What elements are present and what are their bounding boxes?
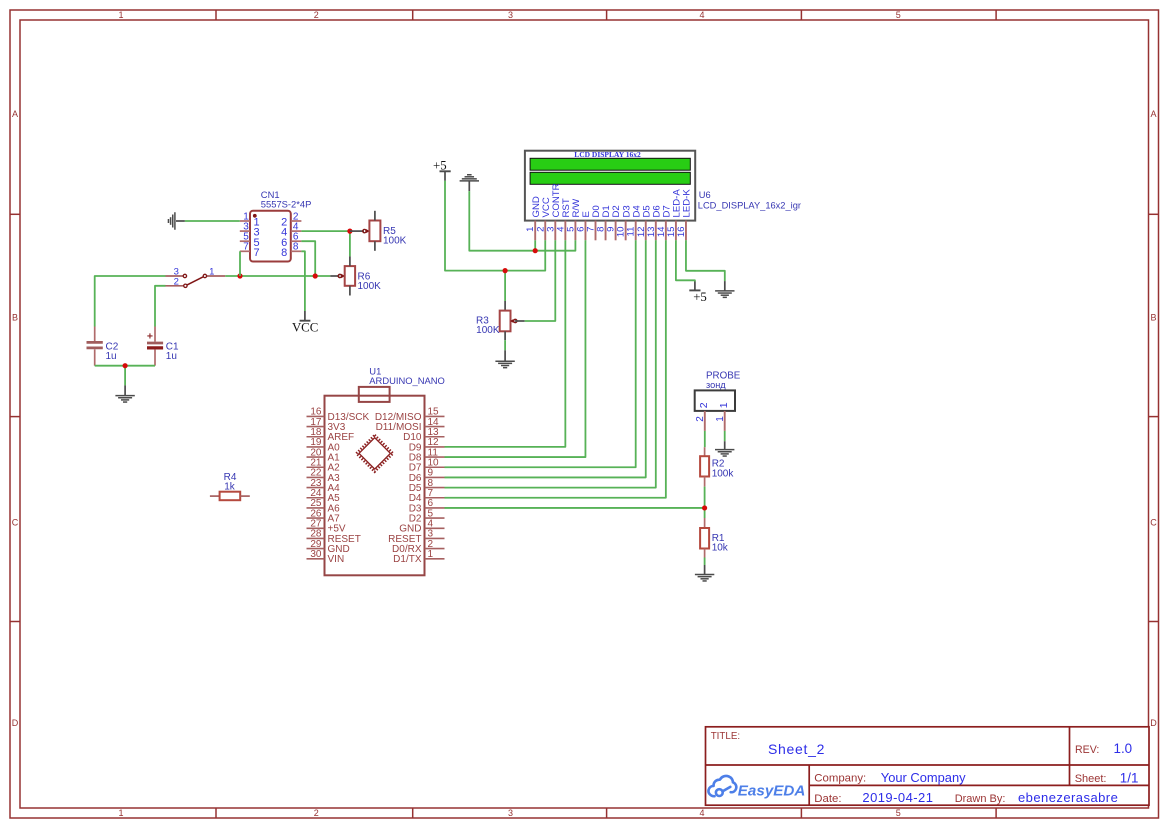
wire LCD D4 to D7 <box>445 240 636 467</box>
junction CN1 pin4 / R5 wiper <box>347 229 352 234</box>
svg-text:B: B <box>1150 312 1156 322</box>
U1 left pins 16-30 <box>307 407 370 566</box>
wire LCD E to D8 <box>445 240 586 457</box>
svg-text:2: 2 <box>314 10 319 20</box>
title block <box>706 727 1150 805</box>
svg-text:LCD_DISPLAY_16x2_igr: LCD_DISPLAY_16x2_igr <box>698 201 801 211</box>
LCD display U6 body <box>525 151 695 221</box>
junction switch/CN1 pin7 <box>237 273 242 278</box>
svg-text:B: B <box>12 312 18 322</box>
svg-text:EasyEDA: EasyEDA <box>738 782 806 799</box>
switch pin 3 wire <box>95 276 166 327</box>
U1 right pins 15-1 <box>375 407 445 566</box>
svg-text:1u: 1u <box>166 351 177 362</box>
svg-text:1: 1 <box>428 549 434 560</box>
svg-text:8: 8 <box>281 247 287 259</box>
svg-text:Company:: Company: <box>814 773 866 785</box>
U1 USB notch <box>359 387 390 402</box>
svg-text:Your Company: Your Company <box>881 770 966 785</box>
LCD pin stubs <box>535 221 686 241</box>
svg-text:D: D <box>1150 718 1157 728</box>
LCD pin names <box>531 183 693 217</box>
main wire switch to R6 <box>225 275 330 277</box>
svg-text:4: 4 <box>699 10 704 20</box>
potentiometer R3 <box>476 271 525 341</box>
svg-text:ebenezerasabre: ebenezerasabre <box>1018 790 1118 805</box>
ground below caps <box>124 385 126 395</box>
svg-text:зонд: зонд <box>706 380 726 390</box>
svg-text:LCD DISPLAY 16x2: LCD DISPLAY 16x2 <box>574 150 641 159</box>
PROBE pin stubs <box>704 411 706 431</box>
svg-text:30: 30 <box>310 549 322 560</box>
svg-text:5: 5 <box>896 808 901 818</box>
svg-text:1: 1 <box>718 402 730 408</box>
svg-text:100k: 100k <box>712 468 735 479</box>
svg-text:D: D <box>12 718 19 728</box>
switch pin 2 wire <box>155 286 166 327</box>
junction R3 top <box>503 268 508 273</box>
potentiometer R5 <box>350 211 407 251</box>
wire LCD D7 to D4 <box>445 240 666 497</box>
svg-text:A: A <box>1150 109 1156 119</box>
wire ground to GND pin1 and R/W pin5 <box>469 191 575 251</box>
svg-text:Sheet_2: Sheet_2 <box>768 741 825 757</box>
svg-text:Date:: Date: <box>814 793 841 805</box>
svg-text:1.0: 1.0 <box>1114 741 1133 756</box>
svg-text:100K: 100K <box>383 236 407 247</box>
VCC power symbol <box>304 311 306 321</box>
junction pin6/main wire <box>313 273 318 278</box>
svg-text:1: 1 <box>118 10 123 20</box>
svg-text:Sheet:: Sheet: <box>1075 773 1107 785</box>
+5 power symbol right <box>694 282 696 291</box>
wire to ground <box>124 366 126 386</box>
svg-text:7: 7 <box>243 242 249 253</box>
ground right of LCD <box>724 281 726 291</box>
wire probe pin1 to ground <box>724 431 726 441</box>
svg-text:8: 8 <box>293 242 299 253</box>
resistor R4 <box>210 472 250 500</box>
junction R2/R1 <box>702 505 707 510</box>
wire R2 to junction to R1 <box>704 487 706 518</box>
svg-text:3: 3 <box>508 808 513 818</box>
svg-text:Drawn By:: Drawn By: <box>955 793 1006 805</box>
svg-text:C: C <box>1150 517 1157 527</box>
ground under R1 <box>704 565 706 574</box>
svg-text:2: 2 <box>695 416 706 422</box>
switch SPDT <box>166 266 226 287</box>
resistor R1 <box>700 518 729 558</box>
wire CN1 pin6 down to main <box>301 241 315 276</box>
junction caps-gnd <box>123 363 128 368</box>
svg-text:C: C <box>12 517 19 527</box>
svg-text:ARDUINO_NANO: ARDUINO_NANO <box>369 375 445 386</box>
svg-text:D1/TX: D1/TX <box>393 554 422 565</box>
svg-text:LED-K: LED-K <box>682 189 693 218</box>
wire CN1 pin1 to ground <box>185 220 240 222</box>
wire CN1 pin4 to R5 <box>301 230 350 232</box>
svg-text:4: 4 <box>699 808 704 818</box>
svg-text:3: 3 <box>508 10 513 20</box>
svg-text:+: + <box>147 331 153 343</box>
connector CN1 body <box>250 211 291 262</box>
svg-text:1: 1 <box>118 808 123 818</box>
connector PROBE body <box>695 390 735 411</box>
wire R1 to ground <box>704 558 706 566</box>
wire LCD RST to D9 <box>445 240 566 447</box>
svg-text:1: 1 <box>209 266 214 277</box>
svg-text:5557S-2*4P: 5557S-2*4P <box>261 198 312 209</box>
CN1 right pins 2,4,6,8 <box>281 211 301 259</box>
CN1 left pins 1,3,5,7 <box>240 211 260 259</box>
svg-text:1k: 1k <box>224 481 236 492</box>
junction GND pin1 <box>533 248 538 253</box>
svg-text:100K: 100K <box>358 281 382 292</box>
svg-text:2: 2 <box>174 276 179 287</box>
svg-text:5: 5 <box>896 10 901 20</box>
resistor R2 <box>700 447 734 486</box>
svg-text:2: 2 <box>314 808 319 818</box>
wire LED-A to +5 <box>676 240 695 281</box>
svg-text:+5: +5 <box>693 290 707 304</box>
svg-text:1u: 1u <box>106 351 117 362</box>
wire caps common <box>95 365 155 367</box>
svg-text:TITLE:: TITLE: <box>711 731 740 742</box>
wire LED-K to ground <box>686 240 725 281</box>
U1 chip diamond <box>356 435 393 472</box>
wire R5 junction down to R6 top <box>349 231 351 256</box>
svg-text:100K: 100K <box>476 325 500 336</box>
svg-text:7: 7 <box>254 247 260 259</box>
LCD green bar 1 <box>530 158 690 170</box>
EasyEDA logo <box>708 776 736 796</box>
wire D3 row to probe divider <box>445 507 705 509</box>
svg-text:1: 1 <box>715 416 726 422</box>
wire R3 wiper to CONTR pin3 <box>525 240 556 321</box>
ground left of CN1 <box>176 220 185 222</box>
LCD pin numbers <box>525 226 687 237</box>
capacitor C1 <box>147 327 179 366</box>
wire probe pin2 to R2 <box>704 431 706 447</box>
svg-text:A: A <box>12 109 18 119</box>
svg-text:VCC: VCC <box>292 320 318 334</box>
wire CN1 pin8 to VCC <box>301 251 305 311</box>
svg-text:2019-04-21: 2019-04-21 <box>862 790 933 805</box>
IC U1 body <box>325 396 425 576</box>
wire LCD D6 to D5 <box>445 240 656 487</box>
svg-text:2: 2 <box>698 402 710 408</box>
ground under R3 <box>504 350 506 361</box>
svg-text:U6: U6 <box>699 190 711 200</box>
LCD green bar 2 <box>530 172 690 184</box>
svg-text:REV:: REV: <box>1075 744 1099 756</box>
wire CN1 pin7 down <box>239 251 241 276</box>
svg-text:1/1: 1/1 <box>1120 770 1139 785</box>
svg-text:10k: 10k <box>712 543 729 554</box>
potentiometer R6 <box>330 256 381 295</box>
wire R3 bottom to ground <box>504 340 506 350</box>
wire +5 to VCC pin2 <box>445 181 545 271</box>
svg-text:16: 16 <box>676 227 687 238</box>
CN1 pin1 marker dot <box>253 214 257 218</box>
inverted ground symbol top <box>460 180 479 182</box>
wire LCD D5 to D6 <box>445 240 646 477</box>
capacitor C2 <box>87 327 119 366</box>
svg-text:VIN: VIN <box>328 554 345 565</box>
